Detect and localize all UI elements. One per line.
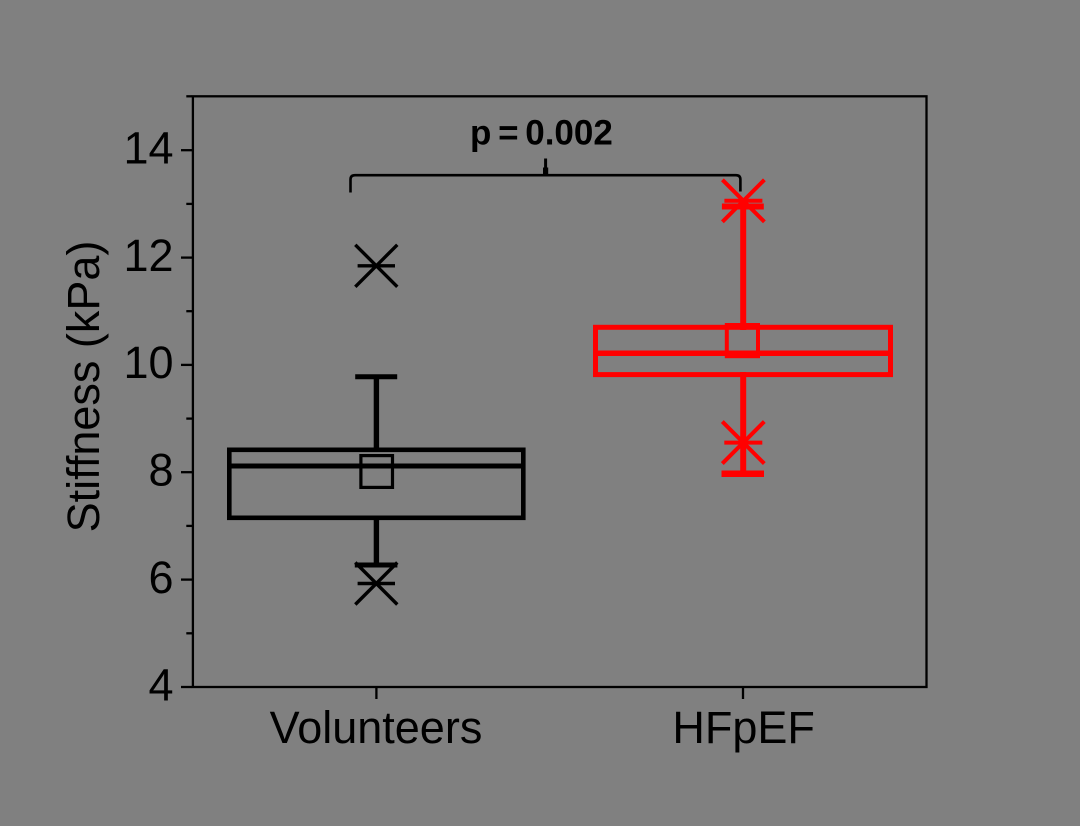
upper whisker cap bbox=[355, 374, 397, 379]
box bbox=[229, 450, 523, 518]
svg-text:4: 4 bbox=[148, 659, 173, 710]
mean marker square (red) bbox=[727, 325, 758, 356]
svg-text:10: 10 bbox=[123, 337, 173, 388]
upper whisker cap (red) bbox=[722, 204, 764, 210]
median line bbox=[227, 464, 526, 469]
y-axis major ticks bbox=[181, 150, 192, 687]
mean marker square bbox=[361, 456, 393, 488]
lower whisker stem (red) bbox=[740, 372, 746, 474]
upper whisker stem bbox=[374, 377, 379, 452]
upper whisker stem (red) bbox=[740, 207, 746, 331]
median line (red) bbox=[593, 351, 893, 357]
svg-text:HFpEF: HFpEF bbox=[672, 702, 815, 753]
lower whisker stem bbox=[374, 516, 379, 565]
significance bracket bbox=[351, 175, 741, 192]
plot frame bbox=[193, 96, 927, 687]
y-axis minor ticks bbox=[186, 96, 192, 633]
svg-text:8: 8 bbox=[148, 445, 173, 496]
svg-text:p = 0.002: p = 0.002 bbox=[470, 114, 613, 153]
bracket caret bbox=[544, 159, 547, 176]
lower whisker cap (red) bbox=[722, 470, 765, 477]
lower outlier star (red) bbox=[722, 422, 764, 464]
svg-text:Volunteers: Volunteers bbox=[270, 702, 483, 753]
lower outlier star bbox=[355, 563, 397, 605]
x-axis ticks bbox=[376, 688, 743, 699]
svg-text:6: 6 bbox=[148, 552, 173, 603]
svg-text:Stiffness (kPa): Stiffness (kPa) bbox=[58, 241, 109, 533]
svg-text:12: 12 bbox=[123, 230, 173, 281]
upper outlier star bbox=[355, 245, 397, 287]
box (red) bbox=[596, 327, 891, 374]
upper outlier star (red) bbox=[722, 180, 764, 222]
x tick labels bbox=[270, 702, 815, 753]
svg-text:14: 14 bbox=[123, 123, 173, 174]
lower whisker cap bbox=[355, 563, 398, 568]
y tick labels bbox=[123, 123, 173, 711]
